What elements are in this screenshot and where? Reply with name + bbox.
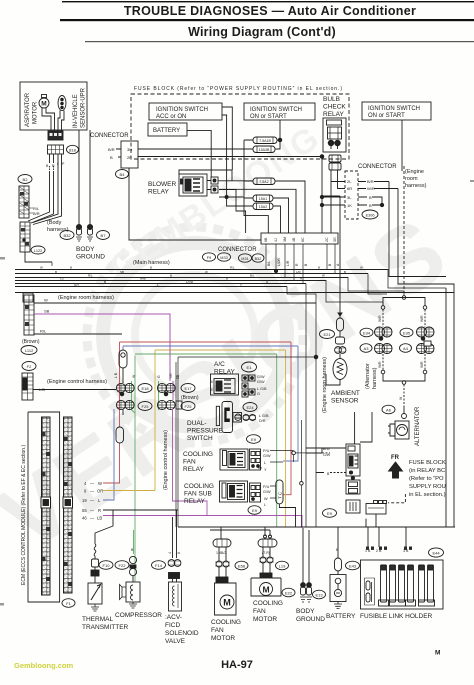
svg-text:G/W: G/W bbox=[257, 375, 265, 379]
svg-text:FUSIBLE LINK HOLDER: FUSIBLE LINK HOLDER bbox=[360, 613, 433, 620]
connector pair E18 (hatched circles) bbox=[116, 383, 134, 395]
svg-text:E58: E58 bbox=[238, 564, 246, 569]
fuse 7.5A 1B bbox=[244, 137, 280, 144]
W wire from strip3 bbox=[34, 298, 316, 304]
svg-text:Wiring Diagram (Cont'd): Wiring Diagram (Cont'd) bbox=[188, 25, 336, 39]
svg-text:harness): harness) bbox=[405, 183, 427, 189]
oval E17 + (Brown) bbox=[181, 384, 199, 402]
scan artifact marks bbox=[0, 180, 474, 606]
wire from TC2 down bbox=[279, 504, 295, 527]
oval F22 bbox=[115, 561, 129, 570]
svg-text:E35: E35 bbox=[403, 331, 411, 336]
battery chain bbox=[330, 548, 346, 609]
strip texture cells bbox=[20, 192, 72, 586]
wires from unit area down to body harness bbox=[28, 172, 54, 223]
connector pair F25-1 bbox=[116, 400, 134, 409]
E24 oval bbox=[243, 403, 257, 412]
svg-text:(in RELAY BC: (in RELAY BC bbox=[409, 468, 445, 474]
svg-text:W: W bbox=[264, 497, 268, 501]
main harness bus lines bbox=[15, 270, 454, 293]
connector 818 grid bbox=[48, 145, 64, 154]
svg-text:7.5A2: 7.5A2 bbox=[259, 180, 268, 184]
svg-text:46: 46 bbox=[82, 516, 87, 521]
svg-text:ALTERNATOR: ALTERNATOR bbox=[415, 406, 421, 446]
svg-text:LB: LB bbox=[97, 516, 102, 521]
svg-text:E34: E34 bbox=[363, 331, 371, 336]
wire bundle: blue bbox=[123, 346, 298, 461]
A/C relay label bbox=[214, 361, 235, 376]
svg-text:E9: E9 bbox=[251, 437, 257, 442]
svg-text:F14: F14 bbox=[155, 563, 163, 568]
ACV connector cluster bbox=[168, 560, 181, 582]
svg-text:L/R: L/R bbox=[286, 260, 290, 266]
inline connector TC2 bbox=[276, 480, 283, 504]
aspirator motor symbol bbox=[39, 95, 49, 109]
svg-text:2C: 2C bbox=[325, 237, 329, 242]
svg-text:E22: E22 bbox=[285, 591, 293, 596]
connector cluster E34 bbox=[375, 327, 393, 340]
svg-text:L: L bbox=[264, 503, 266, 507]
oval E56 bbox=[235, 561, 248, 570]
svg-text:6C: 6C bbox=[301, 237, 305, 242]
blower relay right connectors bbox=[179, 170, 253, 233]
pin55 R wire bbox=[103, 509, 178, 511]
body ground B32 / B7 bbox=[60, 175, 110, 241]
COOLING FAN MOTOR label 2 bbox=[253, 600, 283, 623]
right relay box 2 bbox=[346, 480, 360, 494]
svg-text:W/R: W/R bbox=[378, 315, 382, 322]
svg-text:B/L: B/L bbox=[267, 261, 271, 266]
connector strip 3 (engine room) bbox=[24, 295, 34, 335]
svg-text:(Refer to “PO: (Refer to “PO bbox=[409, 476, 444, 482]
FR arrow bbox=[389, 455, 403, 478]
svg-text:E21: E21 bbox=[323, 332, 331, 337]
svg-text:MOTOR: MOTOR bbox=[211, 635, 235, 642]
svg-text:3L: 3L bbox=[347, 195, 352, 200]
long connector box (main) bbox=[261, 233, 338, 244]
connector cluster E35 bbox=[417, 327, 435, 340]
svg-text:OR: OR bbox=[97, 489, 103, 494]
ACV-FICD label bbox=[165, 614, 199, 645]
svg-text:L/OR: L/OR bbox=[277, 258, 281, 266]
svg-text:(Brown): (Brown) bbox=[22, 339, 40, 345]
svg-text:ON or START: ON or START bbox=[368, 113, 405, 119]
bus staircase to lower right bbox=[287, 269, 446, 527]
svg-text:B4: B4 bbox=[120, 172, 126, 177]
svg-text:IGNITION SWITCH: IGNITION SWITCH bbox=[156, 107, 208, 113]
svg-text:W/B: W/B bbox=[140, 276, 146, 280]
aspirator/in-vehicle sensor unit box bbox=[20, 82, 87, 130]
connector B1 box (left, 3N/2F) bbox=[90, 133, 138, 179]
svg-text:(Engine: (Engine bbox=[405, 169, 424, 175]
svg-text:B: B bbox=[150, 265, 152, 269]
THERMAL TRANSMITTER label bbox=[82, 616, 129, 631]
svg-text::ACV-: :ACV- bbox=[165, 614, 182, 621]
alternator branch lower bbox=[378, 354, 427, 406]
svg-text:SENSOR: SENSOR bbox=[331, 398, 359, 405]
oval E18 bbox=[138, 384, 152, 393]
connector (black) under unit box bbox=[48, 131, 63, 140]
ACV feeds bbox=[168, 510, 181, 558]
svg-text:L19: L19 bbox=[279, 564, 286, 569]
svg-text:M33: M33 bbox=[220, 256, 227, 260]
svg-text:2L: 2L bbox=[347, 179, 352, 184]
left fuse bus vertical bbox=[244, 140, 268, 233]
E9 oval (bottom) bbox=[248, 506, 261, 515]
svg-text:(Engine control harness): (Engine control harness) bbox=[47, 379, 107, 385]
svg-text:M: M bbox=[262, 585, 269, 595]
ECM pin rows bbox=[82, 481, 103, 521]
oval A4 bbox=[400, 344, 412, 353]
svg-text:E9: E9 bbox=[327, 511, 333, 516]
svg-text:SB: SB bbox=[120, 270, 124, 274]
svg-text:6R: 6R bbox=[347, 186, 352, 191]
wires below connector with arrows bbox=[33, 130, 90, 225]
svg-text:19: 19 bbox=[82, 498, 87, 503]
svg-text:1 4B/2: 1 4B/2 bbox=[216, 551, 226, 555]
footer bbox=[14, 650, 440, 672]
svg-text:W: W bbox=[322, 273, 325, 277]
body ground (bottom) bbox=[300, 528, 312, 602]
oval F25-1 bbox=[138, 402, 152, 411]
cooling fan sub relay box bbox=[220, 481, 248, 502]
bottom distribution lines bbox=[178, 288, 455, 558]
svg-text:15A2: 15A2 bbox=[259, 205, 267, 209]
svg-text:7.5A1B: 7.5A1B bbox=[259, 139, 271, 143]
oval F25-2 bbox=[181, 402, 195, 411]
yellow to pin9 bbox=[103, 490, 155, 492]
svg-text:(Body: (Body bbox=[47, 220, 62, 226]
svg-text:VALVE: VALVE bbox=[165, 638, 186, 645]
oval E34 bbox=[360, 328, 373, 337]
oval A6 bbox=[382, 405, 395, 414]
battery box bbox=[148, 123, 187, 136]
svg-text:F10: F10 bbox=[103, 563, 111, 568]
red wire with fusible link capsule bbox=[116, 427, 124, 443]
svg-text:3N: 3N bbox=[127, 147, 132, 152]
oval E19 (fan) bbox=[276, 561, 289, 570]
junction dot fuse feed bbox=[278, 120, 282, 142]
svg-text:F9: F9 bbox=[207, 256, 211, 260]
svg-text:SB: SB bbox=[44, 309, 50, 314]
connector cluster A4 bbox=[417, 341, 435, 354]
svg-text:(Alternator: (Alternator bbox=[365, 363, 371, 389]
big harness boundary bbox=[176, 357, 316, 527]
fuse block dashed box bbox=[131, 94, 349, 159]
header bbox=[60, 1, 474, 42]
fusible links bbox=[379, 565, 435, 606]
fusible link holder box bbox=[361, 547, 444, 610]
svg-text:L G/B: L G/B bbox=[257, 387, 267, 391]
svg-text:B32: B32 bbox=[255, 257, 262, 261]
svg-text:D/R: D/R bbox=[259, 419, 266, 423]
svg-text:4: 4 bbox=[168, 552, 172, 554]
svg-text:R: R bbox=[98, 508, 101, 513]
svg-text:E18: E18 bbox=[141, 386, 149, 391]
svg-text:FUSE BLOCK: FUSE BLOCK bbox=[409, 460, 446, 466]
svg-text:Y: Y bbox=[240, 283, 242, 287]
svg-text:HA-97: HA-97 bbox=[221, 659, 253, 671]
top rule bbox=[62, 1, 474, 2]
svg-text:E1: E1 bbox=[247, 365, 253, 370]
svg-text:(Brown): (Brown) bbox=[181, 395, 199, 401]
E24 connector bits bbox=[243, 414, 269, 423]
cooling fan sub relay label bbox=[184, 483, 214, 505]
R/L wire from strip3 bbox=[34, 329, 122, 335]
svg-text:GROUND: GROUND bbox=[296, 616, 325, 623]
blower relay box bbox=[179, 174, 207, 196]
dual-pressure switch label bbox=[187, 420, 223, 442]
svg-text:G/W: G/W bbox=[323, 453, 331, 457]
svg-text:B2: B2 bbox=[23, 177, 29, 182]
svg-text:R/L: R/L bbox=[40, 329, 47, 334]
svg-text:R: R bbox=[52, 164, 55, 168]
dual-pressure switch symbol bbox=[216, 402, 241, 433]
ovals F9 M33 M1 B32 bbox=[203, 253, 265, 262]
(Engine room harness) right label bbox=[405, 169, 427, 189]
svg-text:E306: E306 bbox=[366, 214, 375, 218]
svg-text:W/R: W/R bbox=[378, 361, 382, 368]
E9 oval (top) bbox=[247, 435, 261, 444]
ambient sensor chain bbox=[320, 313, 348, 385]
compressor chain bbox=[129, 530, 136, 582]
connector strip 4 (engine control) bbox=[22, 373, 33, 400]
svg-text:BATTERY: BATTERY bbox=[153, 128, 180, 134]
wire codes above connector row bbox=[114, 372, 180, 379]
wire 3N row bbox=[138, 148, 253, 150]
svg-text:F2: F2 bbox=[27, 364, 32, 369]
(Brown) label + E112 oval bbox=[22, 339, 40, 345]
cooling fan motor 1 (main) bbox=[213, 539, 236, 615]
wires inside unit box bbox=[42, 108, 64, 131]
svg-text:E24: E24 bbox=[246, 405, 254, 410]
svg-text:G/W: G/W bbox=[257, 380, 265, 384]
junction on 2F line bbox=[320, 155, 324, 233]
svg-text:BLOWER: BLOWER bbox=[148, 181, 176, 188]
right connector (E306) dashed box bbox=[345, 164, 398, 219]
svg-text:MOTOR: MOTOR bbox=[253, 616, 277, 623]
wire TC to E19 bbox=[122, 368, 124, 383]
purple wire down from SB bbox=[170, 314, 173, 400]
svg-text:B: B bbox=[70, 265, 72, 269]
svg-text:FAN: FAN bbox=[183, 459, 196, 466]
svg-text:PRESSURE: PRESSURE bbox=[187, 428, 223, 435]
oval F2 bbox=[22, 362, 36, 371]
svg-text:in EL section.): in EL section.) bbox=[409, 492, 446, 498]
oval B18 bbox=[67, 145, 79, 153]
svg-text:4B: 4B bbox=[292, 237, 296, 242]
svg-text:ASPIRATOR: ASPIRATOR bbox=[25, 92, 31, 127]
wire 2F row bbox=[138, 156, 322, 158]
svg-text:RELAY: RELAY bbox=[214, 369, 235, 376]
svg-text:M: M bbox=[223, 598, 231, 608]
svg-text:A4: A4 bbox=[403, 346, 409, 351]
svg-text:W: W bbox=[98, 481, 102, 486]
svg-text:L B: L B bbox=[114, 372, 118, 378]
thermal transmitter symbol bbox=[88, 583, 102, 611]
svg-text:E17: E17 bbox=[184, 386, 192, 391]
SB wire (purple) bbox=[34, 314, 170, 381]
svg-text:RELAY: RELAY bbox=[184, 498, 205, 505]
oval E22 bbox=[282, 588, 295, 597]
svg-text:G/W: G/W bbox=[263, 454, 271, 458]
svg-text:CONNECTOR: CONNECTOR bbox=[358, 164, 397, 170]
svg-text:B: B bbox=[369, 203, 372, 208]
svg-text:E9: E9 bbox=[252, 508, 258, 513]
pin wires below connector box with labels bbox=[266, 244, 340, 284]
svg-text:GROUND: GROUND bbox=[76, 254, 105, 261]
svg-text:FAN: FAN bbox=[253, 608, 266, 615]
fuse 15A 2B bbox=[253, 203, 281, 233]
svg-text:TROUBLE DIAGNOSES — Auto Air C: TROUBLE DIAGNOSES — Auto Air Conditioner bbox=[124, 4, 416, 18]
svg-text:CHECK: CHECK bbox=[323, 104, 346, 111]
connector cluster A3 bbox=[375, 344, 393, 354]
svg-text:B: B bbox=[318, 265, 320, 269]
wires below F25 row bbox=[103, 409, 114, 500]
svg-text:COOLING: COOLING bbox=[184, 483, 214, 490]
svg-text:818: 818 bbox=[69, 148, 76, 153]
BODY GROUND label bbox=[76, 246, 105, 261]
(Body harness) label bbox=[47, 220, 69, 233]
svg-text:M: M bbox=[41, 101, 46, 108]
junction circle on G/W feed bbox=[292, 451, 330, 462]
bulb check relay connector below bbox=[329, 155, 341, 170]
aspirator motor M1 label bbox=[25, 87, 87, 128]
svg-text:COOLING: COOLING bbox=[211, 619, 241, 626]
(Alternator harness) rotated label bbox=[365, 363, 378, 389]
svg-text:B: B bbox=[226, 276, 228, 280]
watermark bbox=[0, 118, 467, 572]
svg-text:B/L: B/L bbox=[250, 273, 255, 277]
ECM strip 2 bbox=[63, 417, 73, 593]
svg-text:M: M bbox=[435, 650, 440, 657]
svg-text:LG: LG bbox=[60, 276, 65, 280]
connector strip B2 (hatched) bbox=[19, 186, 29, 218]
svg-text:FR: FR bbox=[391, 455, 400, 461]
connector strip 2 (left) bbox=[20, 222, 30, 252]
svg-text:W/R: W/R bbox=[367, 186, 375, 191]
oval F14 bbox=[152, 561, 166, 570]
svg-text:B/R: B/R bbox=[108, 147, 115, 152]
svg-text:L G/B: L G/B bbox=[259, 414, 269, 418]
svg-text:IGNITION SWITCH: IGNITION SWITCH bbox=[368, 106, 420, 112]
svg-text:TRANSMITTER: TRANSMITTER bbox=[82, 624, 129, 631]
wire pin55 branch to thermal transmitter bbox=[95, 510, 113, 544]
svg-text:R/L: R/L bbox=[230, 265, 235, 269]
A/C relay box bbox=[211, 374, 239, 395]
svg-text:ON or START: ON or START bbox=[250, 114, 287, 120]
svg-text:1K: 1K bbox=[347, 203, 352, 208]
svg-text:BODY: BODY bbox=[76, 246, 95, 253]
svg-text:G/Y: G/Y bbox=[74, 283, 79, 287]
ECM strip 1 bbox=[41, 417, 51, 595]
alternator symbol bbox=[388, 406, 409, 439]
wires into right relay boxes bbox=[306, 447, 353, 476]
svg-text:3G: 3G bbox=[333, 237, 337, 242]
engine room harness line + strip bbox=[23, 293, 114, 302]
svg-text:15A1: 15A1 bbox=[259, 197, 267, 201]
feed steps into relay boxes bbox=[355, 412, 372, 444]
svg-text:B: B bbox=[110, 155, 113, 160]
svg-text:G: G bbox=[157, 375, 161, 378]
in-vehicle sensor symbol bbox=[58, 96, 66, 111]
svg-text:ACC or ON: ACC or ON bbox=[156, 114, 186, 120]
AMBIENT SENSOR label bbox=[331, 390, 360, 405]
oval F1 bbox=[62, 599, 75, 608]
svg-text:G: G bbox=[257, 392, 260, 396]
svg-text:Gembloong.com: Gembloong.com bbox=[14, 661, 74, 670]
svg-text:P/U: P/U bbox=[263, 485, 270, 489]
FUSE BLOCK (in RELAY BOX) text bbox=[409, 460, 446, 498]
svg-text:A6: A6 bbox=[386, 408, 392, 413]
svg-text:F25: F25 bbox=[142, 404, 150, 409]
bus wire code ticks bbox=[40, 265, 363, 287]
svg-text:THERMAL: THERMAL bbox=[82, 616, 113, 623]
svg-text:R/L: R/L bbox=[88, 273, 93, 277]
green stubs at connector rows bbox=[132, 356, 159, 583]
svg-text:RELAY: RELAY bbox=[148, 189, 169, 196]
oval E43 bbox=[346, 561, 360, 570]
E9 oval (right) bbox=[323, 509, 337, 518]
svg-text:4J: 4J bbox=[274, 238, 278, 242]
wire bundle: green bbox=[135, 354, 277, 527]
right relay box (in relay box) 1 bbox=[346, 444, 360, 480]
svg-text:B: B bbox=[104, 280, 106, 284]
svg-text:CONNECTOR: CONNECTOR bbox=[218, 247, 257, 253]
dashed relay box boundary bbox=[388, 494, 405, 503]
svg-text:T C: T C bbox=[278, 491, 283, 499]
svg-text:F25: F25 bbox=[185, 404, 193, 409]
svg-text:B/R: B/R bbox=[33, 211, 40, 216]
svg-text:COMPRESSOR: COMPRESSOR bbox=[115, 612, 162, 619]
connector pair F25-2 bbox=[157, 400, 182, 409]
wire bundle: yellow bbox=[155, 350, 286, 527]
svg-text:B7: B7 bbox=[101, 233, 107, 238]
svg-text:SENSOR-UPR: SENSOR-UPR bbox=[81, 87, 87, 128]
svg-text:CONNECTOR: CONNECTOR bbox=[90, 133, 129, 139]
BODY GROUND label (bottom) bbox=[296, 608, 325, 623]
svg-text:E44: E44 bbox=[432, 551, 440, 556]
svg-text:B: B bbox=[55, 270, 57, 274]
connector pair E17 bbox=[157, 383, 175, 395]
ACV-FICD solenoid valve symbol bbox=[169, 582, 182, 611]
svg-text:SOLENOID: SOLENOID bbox=[165, 630, 199, 637]
rule under title bbox=[60, 19, 474, 21]
svg-text:W/R: W/R bbox=[420, 315, 424, 322]
svg-text:6B: 6B bbox=[264, 237, 268, 242]
svg-text:DUAL-: DUAL- bbox=[187, 420, 207, 427]
svg-text:B: B bbox=[170, 273, 172, 277]
svg-text:6: 6 bbox=[211, 380, 213, 384]
svg-text:L122: L122 bbox=[34, 249, 42, 253]
svg-text:FUSE BLOCK (Refer to “POWER SU: FUSE BLOCK (Refer to “POWER SUPPLY ROUTI… bbox=[134, 86, 342, 92]
inline connector TC bbox=[119, 350, 127, 368]
svg-text:B32: B32 bbox=[63, 233, 71, 238]
oval E35 bbox=[400, 328, 413, 337]
svg-text:RELAY: RELAY bbox=[183, 466, 204, 473]
ignition switch ON or START box (in fuse block) bbox=[244, 103, 315, 120]
svg-text:W: W bbox=[40, 265, 43, 269]
oval L122 bbox=[31, 246, 45, 254]
E9 connector cluster 1 bbox=[250, 449, 294, 472]
purple pin46 + run right bbox=[103, 409, 302, 528]
wires: ACC/ON box to blower relay loop bbox=[187, 107, 232, 197]
svg-text:6: 6 bbox=[177, 552, 181, 554]
left sub symbol bbox=[365, 578, 375, 605]
oval E44 bbox=[429, 548, 444, 557]
svg-text:W: W bbox=[360, 265, 363, 269]
wire row to right turn bbox=[219, 189, 296, 233]
